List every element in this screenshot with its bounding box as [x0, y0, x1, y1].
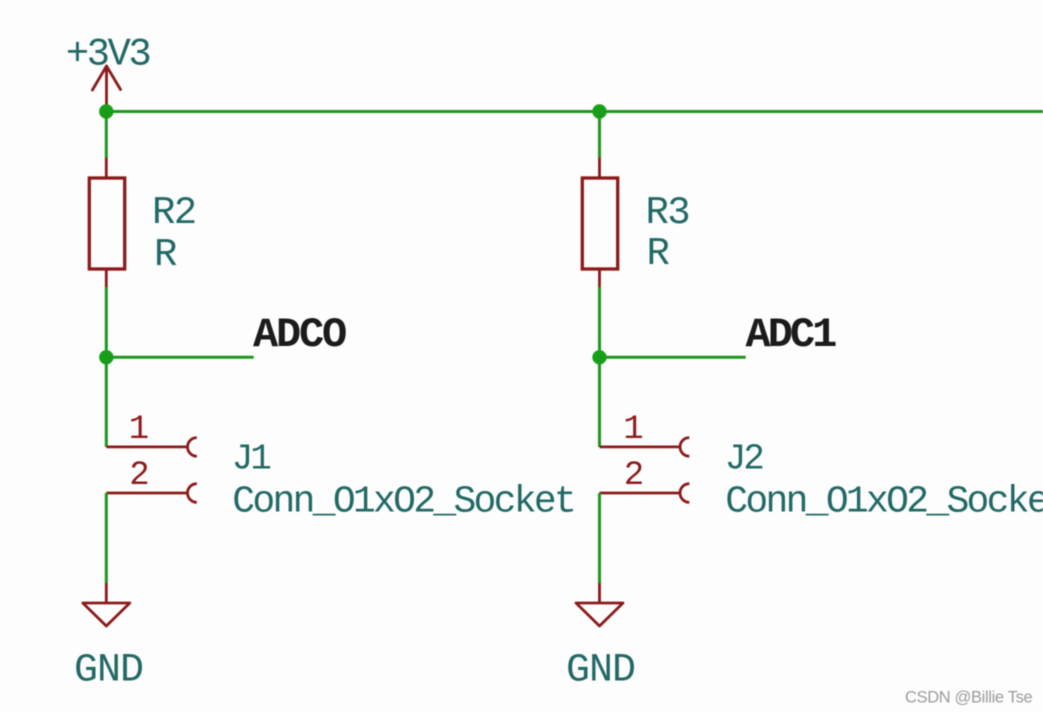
svg-text:Conn_O1xO2_Socket: Conn_O1xO2_Socket — [232, 481, 574, 524]
svg-text:1: 1 — [623, 411, 643, 449]
resistor R2 pin 2 — [105, 269, 108, 287]
svg-text:1: 1 — [129, 411, 149, 449]
junction dot ADC1 — [592, 350, 606, 364]
svg-text:2: 2 — [129, 457, 149, 495]
svg-text:CSDN @Billie Tse: CSDN @Billie Tse — [905, 689, 1032, 707]
svg-text:ADC1: ADC1 — [746, 311, 837, 359]
svg-text:R: R — [154, 233, 177, 277]
wire J1 pin 2 to GND — [105, 493, 108, 583]
wire R3 to ADC1 junction — [598, 287, 601, 357]
ground symbol right triangle — [576, 603, 623, 626]
svg-text:Conn_O1xO2_Socket: Conn_O1xO2_Socket — [725, 481, 1043, 524]
svg-text:R2: R2 — [152, 191, 196, 235]
resistor R2 pin 1 — [105, 158, 108, 179]
connector J2 pin 1 — [600, 438, 690, 457]
power symbol +3V3 — [66, 33, 150, 112]
svg-text:GND: GND — [566, 649, 635, 694]
wire ADC1 stub — [600, 356, 746, 359]
svg-text:GND: GND — [74, 649, 143, 694]
resistor R2 body — [89, 178, 124, 269]
svg-text:J1: J1 — [232, 439, 271, 480]
connector J1 pin 2 — [106, 484, 197, 503]
wire bus junction to R3 pin — [598, 112, 601, 158]
wire J2 pin 2 to GND — [598, 493, 601, 583]
wire top bus — [106, 110, 1043, 113]
wire ADC1 junction to J2 pin 1 — [598, 357, 601, 447]
wire ADC0 junction to J1 pin 1 — [105, 357, 108, 447]
resistor R3 body — [582, 178, 617, 269]
wire R2 to ADC0 junction — [105, 287, 108, 357]
svg-text:R: R — [647, 232, 670, 276]
wire ADC0 stub — [106, 356, 253, 359]
svg-text:J2: J2 — [725, 439, 764, 480]
svg-text:R3: R3 — [646, 191, 690, 235]
junction dot at +3V3 — [99, 104, 113, 118]
connector J2 pin 2 — [600, 484, 690, 503]
junction dot at R3 top — [592, 104, 606, 118]
wire from +3V3 junction to R2 pin — [105, 112, 108, 158]
resistor R3 pin 2 — [598, 269, 601, 287]
junction dot ADC0 — [99, 350, 113, 364]
ground symbol right pin — [598, 583, 601, 603]
ground symbol left triangle — [83, 603, 130, 626]
svg-text:2: 2 — [624, 457, 644, 495]
resistor R3 pin 1 — [598, 158, 601, 179]
connector J1 pin 1 — [106, 438, 197, 457]
svg-text:ADCO: ADCO — [253, 311, 346, 359]
ground symbol left pin — [105, 583, 108, 603]
